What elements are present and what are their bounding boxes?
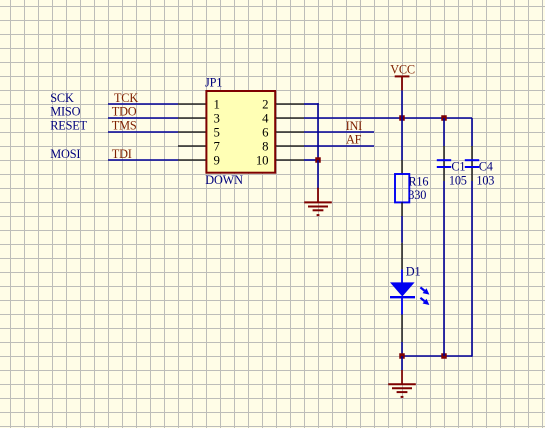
svg-text:6: 6	[262, 126, 269, 140]
svg-text:2: 2	[262, 98, 268, 112]
svg-text:DOWN: DOWN	[205, 173, 243, 187]
svg-text:INI: INI	[346, 119, 363, 133]
svg-text:330: 330	[408, 188, 426, 202]
svg-text:C4: C4	[479, 160, 493, 174]
svg-text:103: 103	[476, 173, 494, 187]
svg-text:R16: R16	[408, 174, 428, 188]
svg-text:3: 3	[214, 112, 220, 126]
svg-text:MISO: MISO	[50, 105, 80, 119]
svg-text:AF: AF	[346, 132, 362, 146]
svg-text:TDO: TDO	[112, 105, 137, 119]
svg-text:RESET: RESET	[50, 118, 87, 132]
svg-text:TCK: TCK	[114, 91, 138, 105]
svg-text:105: 105	[449, 173, 467, 187]
svg-text:MOSI: MOSI	[50, 147, 80, 161]
svg-text:1: 1	[214, 98, 220, 112]
svg-text:7: 7	[214, 140, 221, 154]
svg-text:5: 5	[214, 126, 220, 140]
svg-text:TDI: TDI	[112, 147, 132, 161]
svg-text:8: 8	[262, 140, 268, 154]
svg-text:VCC: VCC	[390, 62, 415, 76]
svg-text:SCK: SCK	[50, 91, 74, 105]
svg-text:JP1: JP1	[205, 76, 222, 90]
svg-text:TMS: TMS	[112, 118, 137, 132]
svg-text:C1: C1	[451, 160, 465, 174]
svg-text:9: 9	[214, 154, 220, 168]
svg-text:10: 10	[256, 154, 268, 168]
svg-text:4: 4	[262, 112, 269, 126]
svg-text:D1: D1	[406, 264, 421, 278]
